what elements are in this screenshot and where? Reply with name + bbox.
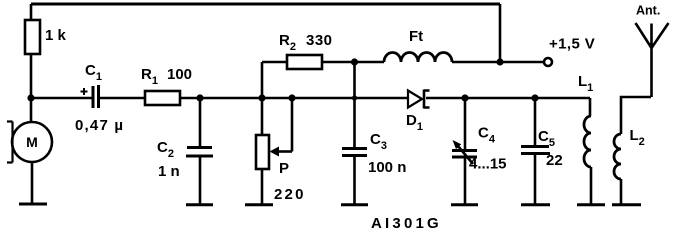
node junction mic / 1k / C1 (27, 94, 34, 101)
svg-text:0,47 µ: 0,47 µ (75, 117, 124, 134)
wire R1 to node C2 (180, 97, 200, 100)
svg-text:Ft: Ft (409, 28, 423, 45)
svg-text:+1,5 V: +1,5 V (549, 36, 595, 53)
wire from top rail down to resistor 1 k (30, 4, 33, 20)
capacitor C3 plates (342, 149, 367, 156)
svg-text:L1: L1 (578, 73, 593, 94)
tunnel diode D1 triangle (408, 91, 422, 108)
wire main line C2 to potentiometer nodes (200, 97, 292, 100)
svg-text:C2: C2 (157, 139, 174, 160)
ground of L1 (577, 203, 605, 206)
wire microphone to ground (31, 162, 34, 204)
wire R2 branch riser (261, 62, 264, 98)
svg-text:Ant.: Ant. (636, 4, 660, 18)
svg-text:R1: R1 (141, 66, 158, 87)
capacitor C2 plates (186, 148, 213, 157)
wire L2 to ground (620, 179, 623, 205)
wire main line pot to D1 (292, 97, 408, 100)
wire from resistor 1 k down to main node (30, 54, 33, 98)
node junction pot top / R2 branch (258, 94, 265, 101)
trimmer arrow of C4 (458, 146, 473, 164)
potentiometer wiper arrow (277, 150, 292, 153)
wire main line turn down into L1 (589, 98, 592, 116)
node junction R2 / C3 riser (351, 58, 358, 65)
wire antenna lead to L2 (621, 97, 651, 134)
ground of potentiometer (245, 203, 273, 206)
wire L1 to ground (590, 167, 593, 205)
wire C2 to ground (199, 157, 202, 205)
svg-text:P: P (279, 160, 289, 177)
ground of C2 (186, 203, 213, 206)
svg-text:220: 220 (274, 186, 306, 203)
microphone M body circle (12, 122, 52, 162)
terminal +1,5 V open circle (544, 58, 552, 66)
svg-text:100 n: 100 n (368, 159, 406, 176)
wire wiper node down (291, 98, 294, 152)
wire C4 to ground (464, 158, 467, 205)
inductor L2 coil (614, 134, 621, 179)
potentiometer P body (256, 135, 269, 169)
node small junction on main line at C3 riser (352, 95, 357, 100)
ground of C3 (341, 203, 368, 206)
svg-text:C1: C1 (85, 62, 102, 83)
wire top rail down to supply line (499, 4, 502, 62)
wire antenna vertical (650, 48, 653, 97)
svg-text:1 n: 1 n (158, 163, 180, 180)
svg-text:D1: D1 (406, 112, 423, 133)
svg-text:1 k: 1 k (45, 27, 67, 44)
wire node down to potentiometer P (261, 98, 264, 135)
antenna symbol fan (636, 23, 669, 48)
resistor R2 (287, 55, 322, 69)
svg-text:M: M (26, 134, 38, 150)
wire node to capacitor C4 (464, 98, 467, 150)
wire node to capacitor C5 (534, 98, 537, 146)
svg-text:R2: R2 (279, 32, 296, 53)
svg-text:C3: C3 (370, 131, 387, 152)
wire D1 to L1 turn (426, 97, 590, 100)
capacitor C1 electrolytic plates (93, 85, 99, 108)
ground of L2 (612, 203, 641, 206)
ground of microphone (19, 203, 47, 206)
wire C5 to ground (534, 154, 537, 205)
node junction supply rail drop (496, 58, 503, 65)
node junction pot wiper (288, 94, 295, 101)
capacitor C5 plates (521, 147, 550, 154)
svg-text:L2: L2 (630, 127, 645, 148)
svg-text:C4: C4 (478, 125, 496, 146)
wire Ft to supply terminal (452, 61, 544, 64)
wire C3 to ground (353, 156, 356, 205)
polarity plus sign of C1 (81, 88, 88, 95)
inductor Ft humps (384, 53, 452, 63)
tunnel diode D1 cathode bracket (424, 90, 430, 109)
wire main line mic to C1 (31, 97, 92, 100)
ground of C4 (451, 203, 478, 206)
svg-text:100: 100 (167, 66, 192, 83)
wire C1 to R1 (100, 97, 145, 100)
svg-text:22: 22 (546, 152, 563, 169)
svg-text:4...15: 4...15 (469, 156, 507, 173)
wire top rail from 1k resistor to supply drop (31, 3, 500, 6)
resistor R1 (145, 91, 180, 105)
wire potentiometer to ground (261, 169, 264, 205)
ground of C5 (521, 203, 550, 206)
wire riser from branch through main line to C3 (353, 62, 356, 147)
resistor 1 k (25, 20, 40, 54)
inductor L1 coil (584, 116, 591, 167)
svg-text:330: 330 (306, 32, 333, 49)
node junction C2 (196, 94, 203, 101)
wire node to capacitor C2 (199, 98, 202, 146)
wire R2 to Ft (322, 61, 384, 64)
microphone M wire from node down (30, 98, 33, 122)
node junction C4 (461, 94, 468, 101)
node junction C5 (531, 94, 538, 101)
wire branch to R2 (262, 61, 287, 64)
microphone membrane line (7, 122, 13, 163)
svg-text:AI301G: AI301G (371, 215, 442, 231)
capacitor C4 plates (452, 151, 477, 158)
